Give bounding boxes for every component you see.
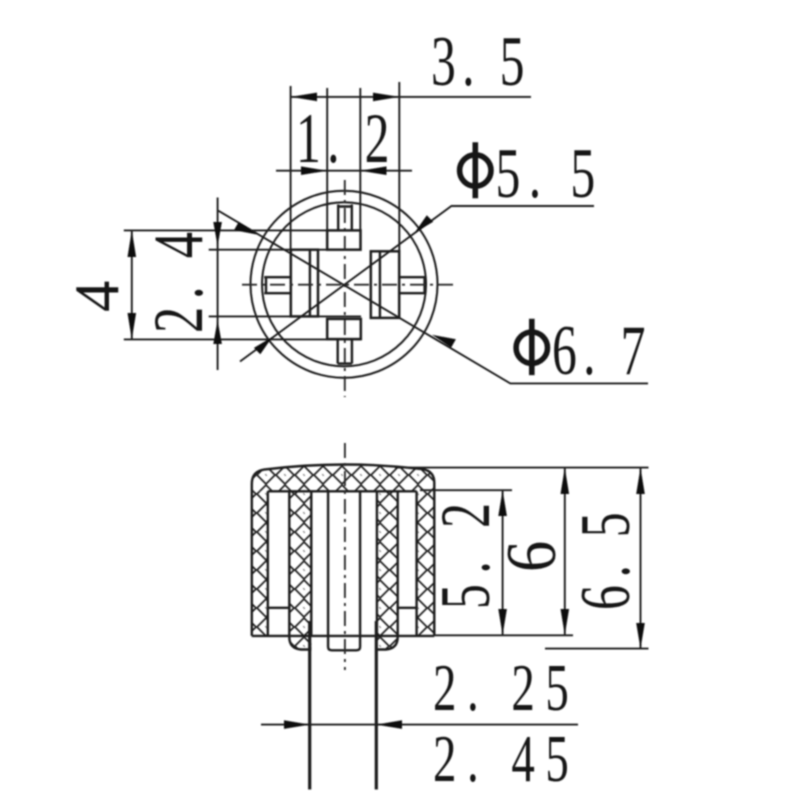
dimension 6 : dimension line (564, 468, 566, 635)
dimension 3.5 : left arrow (291, 93, 317, 102)
right arm inner step line (379, 252, 381, 317)
dimension 1.2 : right arrow (360, 166, 386, 175)
cross slot: right arm rectangle (371, 251, 399, 318)
svg-text:2. 25: 2. 25 (433, 650, 579, 725)
label φ5.5 : digits (496, 134, 604, 213)
dimension 2.4 : top arrow (213, 222, 222, 246)
extension line top (6 / 6.5) (395, 467, 649, 469)
dimension 6.5 : arrows (636, 468, 645, 649)
label φ6.7 : digits (552, 311, 652, 390)
cross slot: left arm rectangle (291, 250, 318, 317)
left wall inner edge (267, 491, 269, 636)
left tube outer edge with foot (289, 491, 311, 649)
right slot bottom (398, 607, 417, 609)
cross slot: top rectangle (327, 230, 360, 249)
dimension 1.2 : label (296, 99, 396, 178)
extension line 6.5 bottom (545, 648, 649, 650)
hatched area: left outer wall (252, 491, 268, 636)
horizontal centerline of top view (242, 284, 457, 286)
label φ6.7 : phi symbol (516, 319, 547, 375)
svg-text:3. 5: 3. 5 (431, 22, 531, 101)
hatched area: right tube wall (377, 491, 398, 649)
svg-text:4: 4 (61, 281, 132, 312)
svg-text:2. 45: 2. 45 (433, 721, 579, 796)
right tube outer edge with foot (377, 491, 398, 649)
bottom tab (338, 339, 352, 363)
dimension 1.2 : left arrow (301, 166, 327, 175)
dimension 2.4 : extension lines (209, 249, 328, 251)
dimension 5.2 : dimension line (502, 490, 504, 635)
svg-text:2. 4: 2. 4 (138, 225, 218, 333)
dimension 6.5 : dimension line (640, 468, 642, 649)
dimension 3.5 : extension lines (290, 86, 292, 250)
bottom view centerline (344, 443, 346, 670)
dimension 6 : arrows (561, 468, 570, 635)
svg-text:5. 5: 5. 5 (496, 134, 604, 213)
svg-text:6: 6 (492, 541, 571, 572)
dimension 2.4 : label (138, 225, 218, 333)
cross slot: bottom rectangle (327, 319, 361, 339)
inner circle (φ5.5 face) (262, 202, 426, 366)
φ5.5 leader NE arrow (415, 215, 434, 233)
left arm inner step line (309, 251, 311, 316)
dimension 2.25 : arrows (284, 720, 402, 729)
dimension 5.2 : arrows (498, 490, 507, 635)
slot top edge (268, 490, 417, 492)
cavity right edge (376, 491, 378, 636)
dimension 4 : extension lines (124, 229, 361, 231)
left tab (264, 277, 291, 293)
dimension 6 : label (492, 541, 571, 572)
body bottom edge (252, 635, 434, 637)
dimension 3.5 : dimension line (291, 96, 531, 98)
dimension 4 : bottom arrow (128, 313, 137, 339)
svg-text:6. 5: 6. 5 (566, 505, 645, 610)
dimension 4 : top arrow (128, 230, 137, 257)
right tab (399, 277, 426, 293)
svg-text:6. 7: 6. 7 (552, 311, 652, 390)
dimension 2.4 : dimension line (217, 198, 219, 371)
φ6.7 leader NW arrow (234, 222, 258, 235)
dimension 6.5 : label (566, 505, 645, 610)
outer circle (φ6.7 body) (251, 191, 438, 378)
vertical centerline of top view (344, 180, 346, 397)
label φ5.5 : phi symbol (460, 142, 491, 198)
extension line bottom (5.2 / 6) (434, 634, 573, 636)
cavity left edge (310, 491, 312, 636)
left slot bottom (268, 607, 290, 609)
dimension 4 : dimension line (131, 230, 133, 339)
leader line φ6.7 (NW-SE diagonal) (218, 211, 648, 384)
φ5.5 leader SW arrow (254, 337, 273, 355)
hatched area: right outer wall (417, 491, 435, 636)
dimension 3.5 : right arrow (373, 93, 399, 102)
hatched area: top band under crown (252, 465, 434, 492)
central 1.2 slot walls (328, 491, 360, 650)
dimension 1.2 : dimension line (276, 170, 412, 172)
right wall inner edge (415, 491, 417, 636)
dimension 2.25 : dimension line (261, 724, 578, 726)
dimension 1.2 : extension lines (326, 88, 328, 230)
dimension 2.25 : label (433, 650, 579, 725)
body outline with crown top (252, 465, 434, 636)
leader line φ5.5 (NE-SW diagonal) (240, 206, 594, 362)
dimension 2.4 : bottom arrow (213, 320, 222, 344)
dimension 5.2 : label (426, 492, 505, 609)
extension lines 2.25/2.45 (long verticals) (308, 621, 311, 790)
dimension 4 : label (61, 281, 132, 312)
dimension 2.45 : label (433, 721, 579, 796)
hatched area: left tube wall (289, 491, 311, 649)
dimension 3.5 : label (431, 22, 531, 101)
top tab (338, 205, 352, 231)
svg-text:1. 2: 1. 2 (296, 99, 396, 178)
extension line 5.2 top (420, 489, 512, 491)
φ6.7 leader SE arrow (432, 335, 456, 348)
